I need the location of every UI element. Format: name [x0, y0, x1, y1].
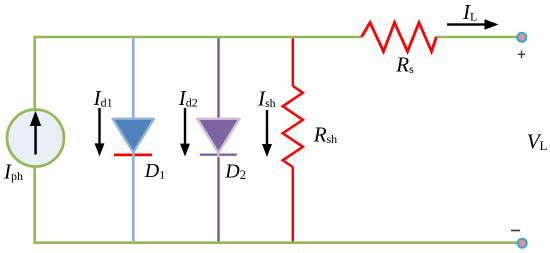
svg-text:Rs: Rs: [395, 52, 414, 76]
svg-text:Rsh: Rsh: [313, 122, 338, 146]
wire diode D2 branch (purple): [217, 38, 219, 241]
diode D1: [113, 119, 154, 160]
wire Rsh branch upper (red): [292, 38, 294, 86]
diode D2: [197, 119, 239, 158]
current source arrow (up): [30, 111, 41, 155]
label plus sign: [518, 51, 526, 58]
svg-text:Id2: Id2: [178, 86, 198, 110]
svg-text:VL: VL: [527, 130, 548, 154]
svg-text:Ish: Ish: [257, 86, 276, 110]
resistor Rs (red zigzag): [362, 23, 437, 52]
arrow IL (right): [447, 19, 499, 29]
svg-text:Id1: Id1: [93, 86, 113, 110]
terminal + (top right): [517, 33, 526, 42]
wire left lower (green): [33, 166, 36, 244]
current source Iph (circle): [7, 110, 64, 167]
wire diode D1 branch (light blue): [132, 38, 134, 241]
label minus sign: [511, 230, 520, 232]
wire top-left (green): [34, 36, 362, 39]
resistor Rsh (red zigzag): [283, 86, 303, 167]
svg-text:IL: IL: [462, 0, 477, 24]
svg-text:D1: D1: [144, 160, 165, 182]
terminal - (bottom right): [518, 239, 527, 248]
arrow Id2 (down): [180, 108, 190, 157]
arrow Ish (down): [262, 110, 272, 157]
wire bottom (green): [34, 241, 519, 244]
wire top-right (green): [436, 36, 518, 39]
arrow Id1 (down): [95, 108, 105, 156]
svg-text:D2: D2: [224, 161, 246, 183]
wire Rsh branch lower (red): [292, 167, 294, 241]
wire left upper (green): [33, 36, 36, 110]
